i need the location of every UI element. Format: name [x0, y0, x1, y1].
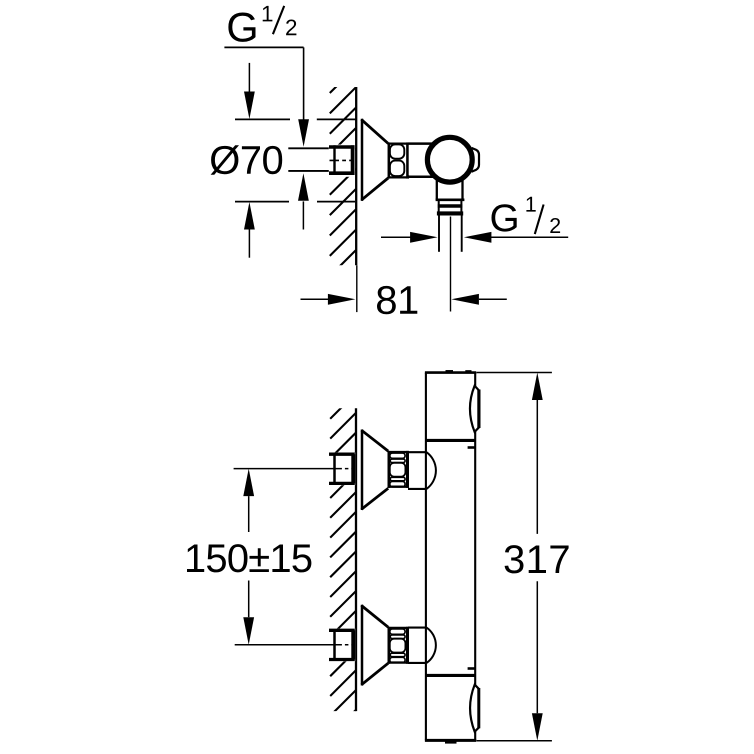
escutcheon cone top figure	[361, 119, 388, 201]
lower arrow shaft Ø70	[248, 229, 250, 257]
wall line top figure	[355, 87, 357, 265]
G 1/2 leader vertical line	[303, 47, 305, 120]
shower hose left edge	[438, 215, 440, 251]
arrow up to pipe bottom edge	[298, 173, 309, 201]
arrow up to upper row centerline	[243, 469, 254, 497]
lower arrow shaft pipe dim	[302, 201, 304, 229]
extension line escutcheon top (right segment)	[317, 118, 356, 120]
detail bulge on bar bottom edge	[445, 741, 457, 743]
G 1/2 hose dim left shaft	[381, 236, 411, 238]
wall union nut upper row	[329, 452, 355, 485]
extension line upper row center	[234, 468, 335, 470]
G 1/2 top label underline	[224, 46, 303, 48]
317 dim line lower part	[536, 581, 538, 713]
screw detail on bar top edge	[446, 370, 454, 372]
bar connector lower row	[408, 628, 436, 663]
outlet elbow below valve	[437, 178, 463, 200]
arrow down to escutcheon top line	[244, 92, 255, 120]
hex connection nut upper row	[388, 451, 409, 488]
knob profile upper	[470, 386, 479, 432]
top cap joint line	[425, 439, 476, 442]
dash-dot centerline upper nut	[334, 468, 352, 470]
extension line escutcheon bottom (left segment)	[235, 201, 289, 203]
81 dim right shaft	[479, 298, 507, 300]
hex connection nut top figure	[388, 142, 409, 178]
bracket tick lower	[468, 667, 475, 670]
arrow left to hose right edge	[464, 232, 492, 243]
extension line bar top	[476, 372, 552, 374]
81 dim left shaft	[301, 298, 330, 300]
wall extension line down to 81 dimension	[356, 265, 358, 312]
extension line bar bottom	[476, 740, 552, 742]
317 dim line upper part	[536, 400, 538, 534]
arrow up to escutcheon bottom line	[244, 202, 255, 230]
hose centerline extension	[450, 217, 452, 312]
arrow left to hose centerline	[451, 294, 479, 305]
arrow down to lower row centerline	[243, 617, 254, 645]
label 81	[377, 286, 417, 314]
hex connection nut lower row	[388, 627, 409, 664]
right side cap of valve	[472, 148, 480, 172]
escutcheon cone lower row	[361, 605, 388, 686]
G 1/2 hose dim right shaft	[491, 236, 568, 238]
bar connector upper row	[408, 452, 436, 489]
extension line escutcheon bottom (right segment)	[317, 201, 355, 203]
dimension Ø70 arrows	[248, 63, 250, 92]
150±15 dim line lower part	[248, 581, 250, 618]
screw detail 2 on bar top edge	[465, 370, 471, 372]
valve body top figure	[409, 144, 437, 177]
pipe centerline dash-dot in nut	[330, 159, 353, 161]
escutcheon cone upper row	[361, 430, 388, 511]
arrow down to pipe top edge	[298, 119, 309, 147]
dash-dot centerline lower nut	[334, 644, 352, 646]
bottom cap joint line	[425, 674, 476, 677]
arrow right to hose left edge	[410, 232, 438, 243]
label G 1/2 bottom	[492, 197, 561, 234]
extension line lower row center	[235, 644, 335, 646]
150±15 dim line upper part	[248, 496, 250, 532]
label G 1/2 top	[228, 6, 296, 42]
wall union nut top figure	[329, 145, 355, 177]
valve cap ring	[427, 137, 472, 182]
wall line bottom figure	[355, 408, 357, 711]
arrow down to bar bottom	[532, 713, 543, 741]
thermostat bar body	[425, 373, 476, 741]
bracket tick upper	[468, 446, 475, 449]
label 317	[505, 545, 569, 573]
shower hose right edge	[461, 215, 463, 251]
knob profile lower	[470, 685, 479, 732]
label Ø70	[211, 145, 283, 175]
arrow right to wall	[328, 294, 356, 305]
label 150±15	[187, 544, 311, 572]
arrow up to bar top	[532, 373, 543, 401]
hose connection collar	[436, 200, 465, 215]
extension line escutcheon top (left segment)	[235, 118, 290, 120]
supply pipe nipple	[288, 148, 333, 171]
wall union nut lower row	[329, 629, 355, 662]
wall hatching bottom figure	[330, 393, 356, 735]
wall hatching top figure	[330, 67, 356, 296]
